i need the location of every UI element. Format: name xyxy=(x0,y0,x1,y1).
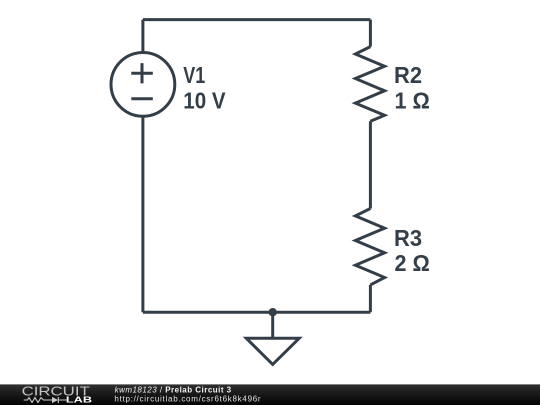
resistor R3 xyxy=(355,209,384,285)
wire right upper xyxy=(369,20,372,47)
ground xyxy=(246,338,299,364)
svg-text:kwm18123 / Prelab Circuit 3: kwm18123 / Prelab Circuit 3 xyxy=(115,386,232,395)
wire top xyxy=(143,18,371,21)
node junction dot xyxy=(269,308,277,316)
svg-text:R2: R2 xyxy=(394,62,422,88)
svg-text:R3: R3 xyxy=(394,225,422,251)
wire right middle xyxy=(369,121,372,208)
svg-text:1 Ω: 1 Ω xyxy=(395,88,430,114)
wire left lower xyxy=(141,116,144,312)
svg-text:LAB: LAB xyxy=(66,395,92,405)
wire left upper xyxy=(141,20,144,53)
wire bottom xyxy=(143,311,371,314)
ground stub wire xyxy=(271,312,274,338)
svg-text:http://circuitlab.com/csr6t6k8: http://circuitlab.com/csr6t6k8k496r xyxy=(114,395,261,404)
svg-text:V1: V1 xyxy=(183,62,205,88)
wire right lower xyxy=(369,285,372,312)
CircuitLab logo squiggle (resistor + diode) xyxy=(24,397,67,403)
voltage source V1 xyxy=(111,53,175,117)
svg-text:10 V: 10 V xyxy=(183,87,226,113)
svg-text:2 Ω: 2 Ω xyxy=(395,250,430,276)
resistor R2 xyxy=(355,47,384,122)
